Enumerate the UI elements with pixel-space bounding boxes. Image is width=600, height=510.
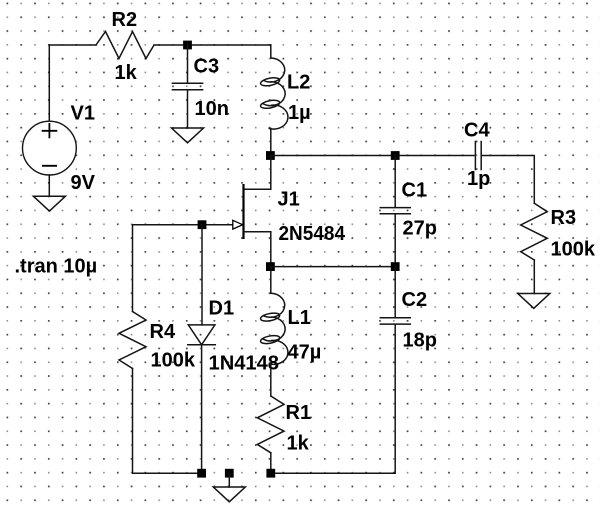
wire C3 to ground xyxy=(187,90,189,128)
wire ground stub xyxy=(228,473,230,487)
capacitor C3 xyxy=(172,83,202,89)
node C2 top junction xyxy=(391,262,400,271)
wire V1 top to R2 xyxy=(49,45,96,121)
svg-text:J1: J1 xyxy=(278,189,300,211)
svg-text:C1: C1 xyxy=(402,180,428,202)
svg-text:100k: 100k xyxy=(151,350,196,372)
svg-text:R3: R3 xyxy=(551,207,577,229)
node bottom R1 xyxy=(266,469,275,478)
ground below V1 xyxy=(33,196,65,211)
svg-text:2N5484: 2N5484 xyxy=(279,223,346,245)
svg-text:1k: 1k xyxy=(115,62,138,84)
svg-text:C3: C3 xyxy=(194,56,220,78)
wire C1 stub xyxy=(394,156,396,207)
svg-text:1N4148: 1N4148 xyxy=(209,353,280,375)
svg-text:9V: 9V xyxy=(71,172,96,194)
resistor R2 xyxy=(96,32,154,59)
capacitor C2 xyxy=(380,318,410,324)
wire R1 bottom xyxy=(270,453,272,473)
transistor J1 source wire xyxy=(244,232,271,267)
svg-text:27p: 27p xyxy=(403,218,437,240)
diode D1 xyxy=(188,325,215,345)
voltage source V1 xyxy=(23,121,77,175)
inductor L2 xyxy=(270,45,272,58)
node mid (L2 bottom junction) xyxy=(266,151,275,160)
svg-text:D1: D1 xyxy=(209,298,235,320)
svg-text:V1: V1 xyxy=(71,103,95,125)
wire D1 cathode to bottom xyxy=(201,345,203,473)
svg-text:.tran 10µ: .tran 10µ xyxy=(15,256,98,278)
wire C3 stub xyxy=(187,45,189,83)
svg-text:R4: R4 xyxy=(150,321,176,343)
resistor R1 xyxy=(257,396,284,453)
wire C2 bottom xyxy=(271,325,395,473)
wire R3 to ground xyxy=(533,260,535,294)
wire R4 top xyxy=(132,225,134,312)
transistor J1 gate wire xyxy=(133,224,234,226)
capacitor C4 xyxy=(475,142,481,170)
svg-text:L2: L2 xyxy=(287,72,310,94)
transistor J1 drain wire xyxy=(244,156,271,190)
capacitor C1 xyxy=(380,208,410,214)
svg-text:18p: 18p xyxy=(403,330,437,352)
wire D1 anode stub xyxy=(201,225,203,325)
ground below R3 xyxy=(518,294,550,309)
transistor J1 channel bar xyxy=(242,184,244,239)
svg-text:100k: 100k xyxy=(551,239,596,261)
svg-text:1µ: 1µ xyxy=(288,102,311,124)
resistor R4 xyxy=(119,312,146,369)
wire mid rail xyxy=(271,155,474,157)
wire R4 bottom xyxy=(133,369,202,474)
wire C4 to R3 xyxy=(482,156,534,204)
svg-text:1p: 1p xyxy=(467,168,490,190)
node bottom ground xyxy=(225,469,234,478)
inductor L1 xyxy=(270,267,272,294)
svg-text:C4: C4 xyxy=(464,120,490,142)
svg-text:47µ: 47µ xyxy=(288,342,322,364)
node bottom D1 xyxy=(197,469,206,478)
svg-text:1k: 1k xyxy=(287,433,310,455)
svg-text:R1: R1 xyxy=(286,402,312,424)
wire C2 stub xyxy=(394,267,396,317)
wire C1 bottom xyxy=(394,215,396,267)
ground bottom xyxy=(213,487,245,502)
node source junction xyxy=(266,262,275,271)
node gate junction xyxy=(198,220,207,229)
svg-text:R2: R2 xyxy=(112,9,138,31)
svg-text:L1: L1 xyxy=(288,307,311,329)
wire R2 to L2 top xyxy=(154,44,271,46)
svg-text:C2: C2 xyxy=(402,289,428,311)
wire source rail xyxy=(271,266,395,268)
node top (C3 junction) xyxy=(183,41,192,50)
wire V1 to ground xyxy=(48,175,50,196)
resistor R3 xyxy=(521,203,548,260)
ground below C3 xyxy=(172,128,204,143)
svg-text:10n: 10n xyxy=(195,98,229,120)
transistor J1 gate arrow xyxy=(233,220,243,229)
node C1 top junction xyxy=(391,151,400,160)
